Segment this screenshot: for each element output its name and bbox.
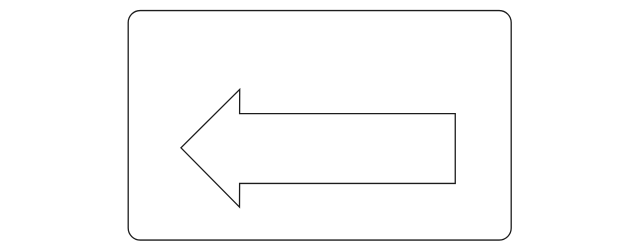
arrow (left-pointing direction arrow) xyxy=(181,89,455,207)
